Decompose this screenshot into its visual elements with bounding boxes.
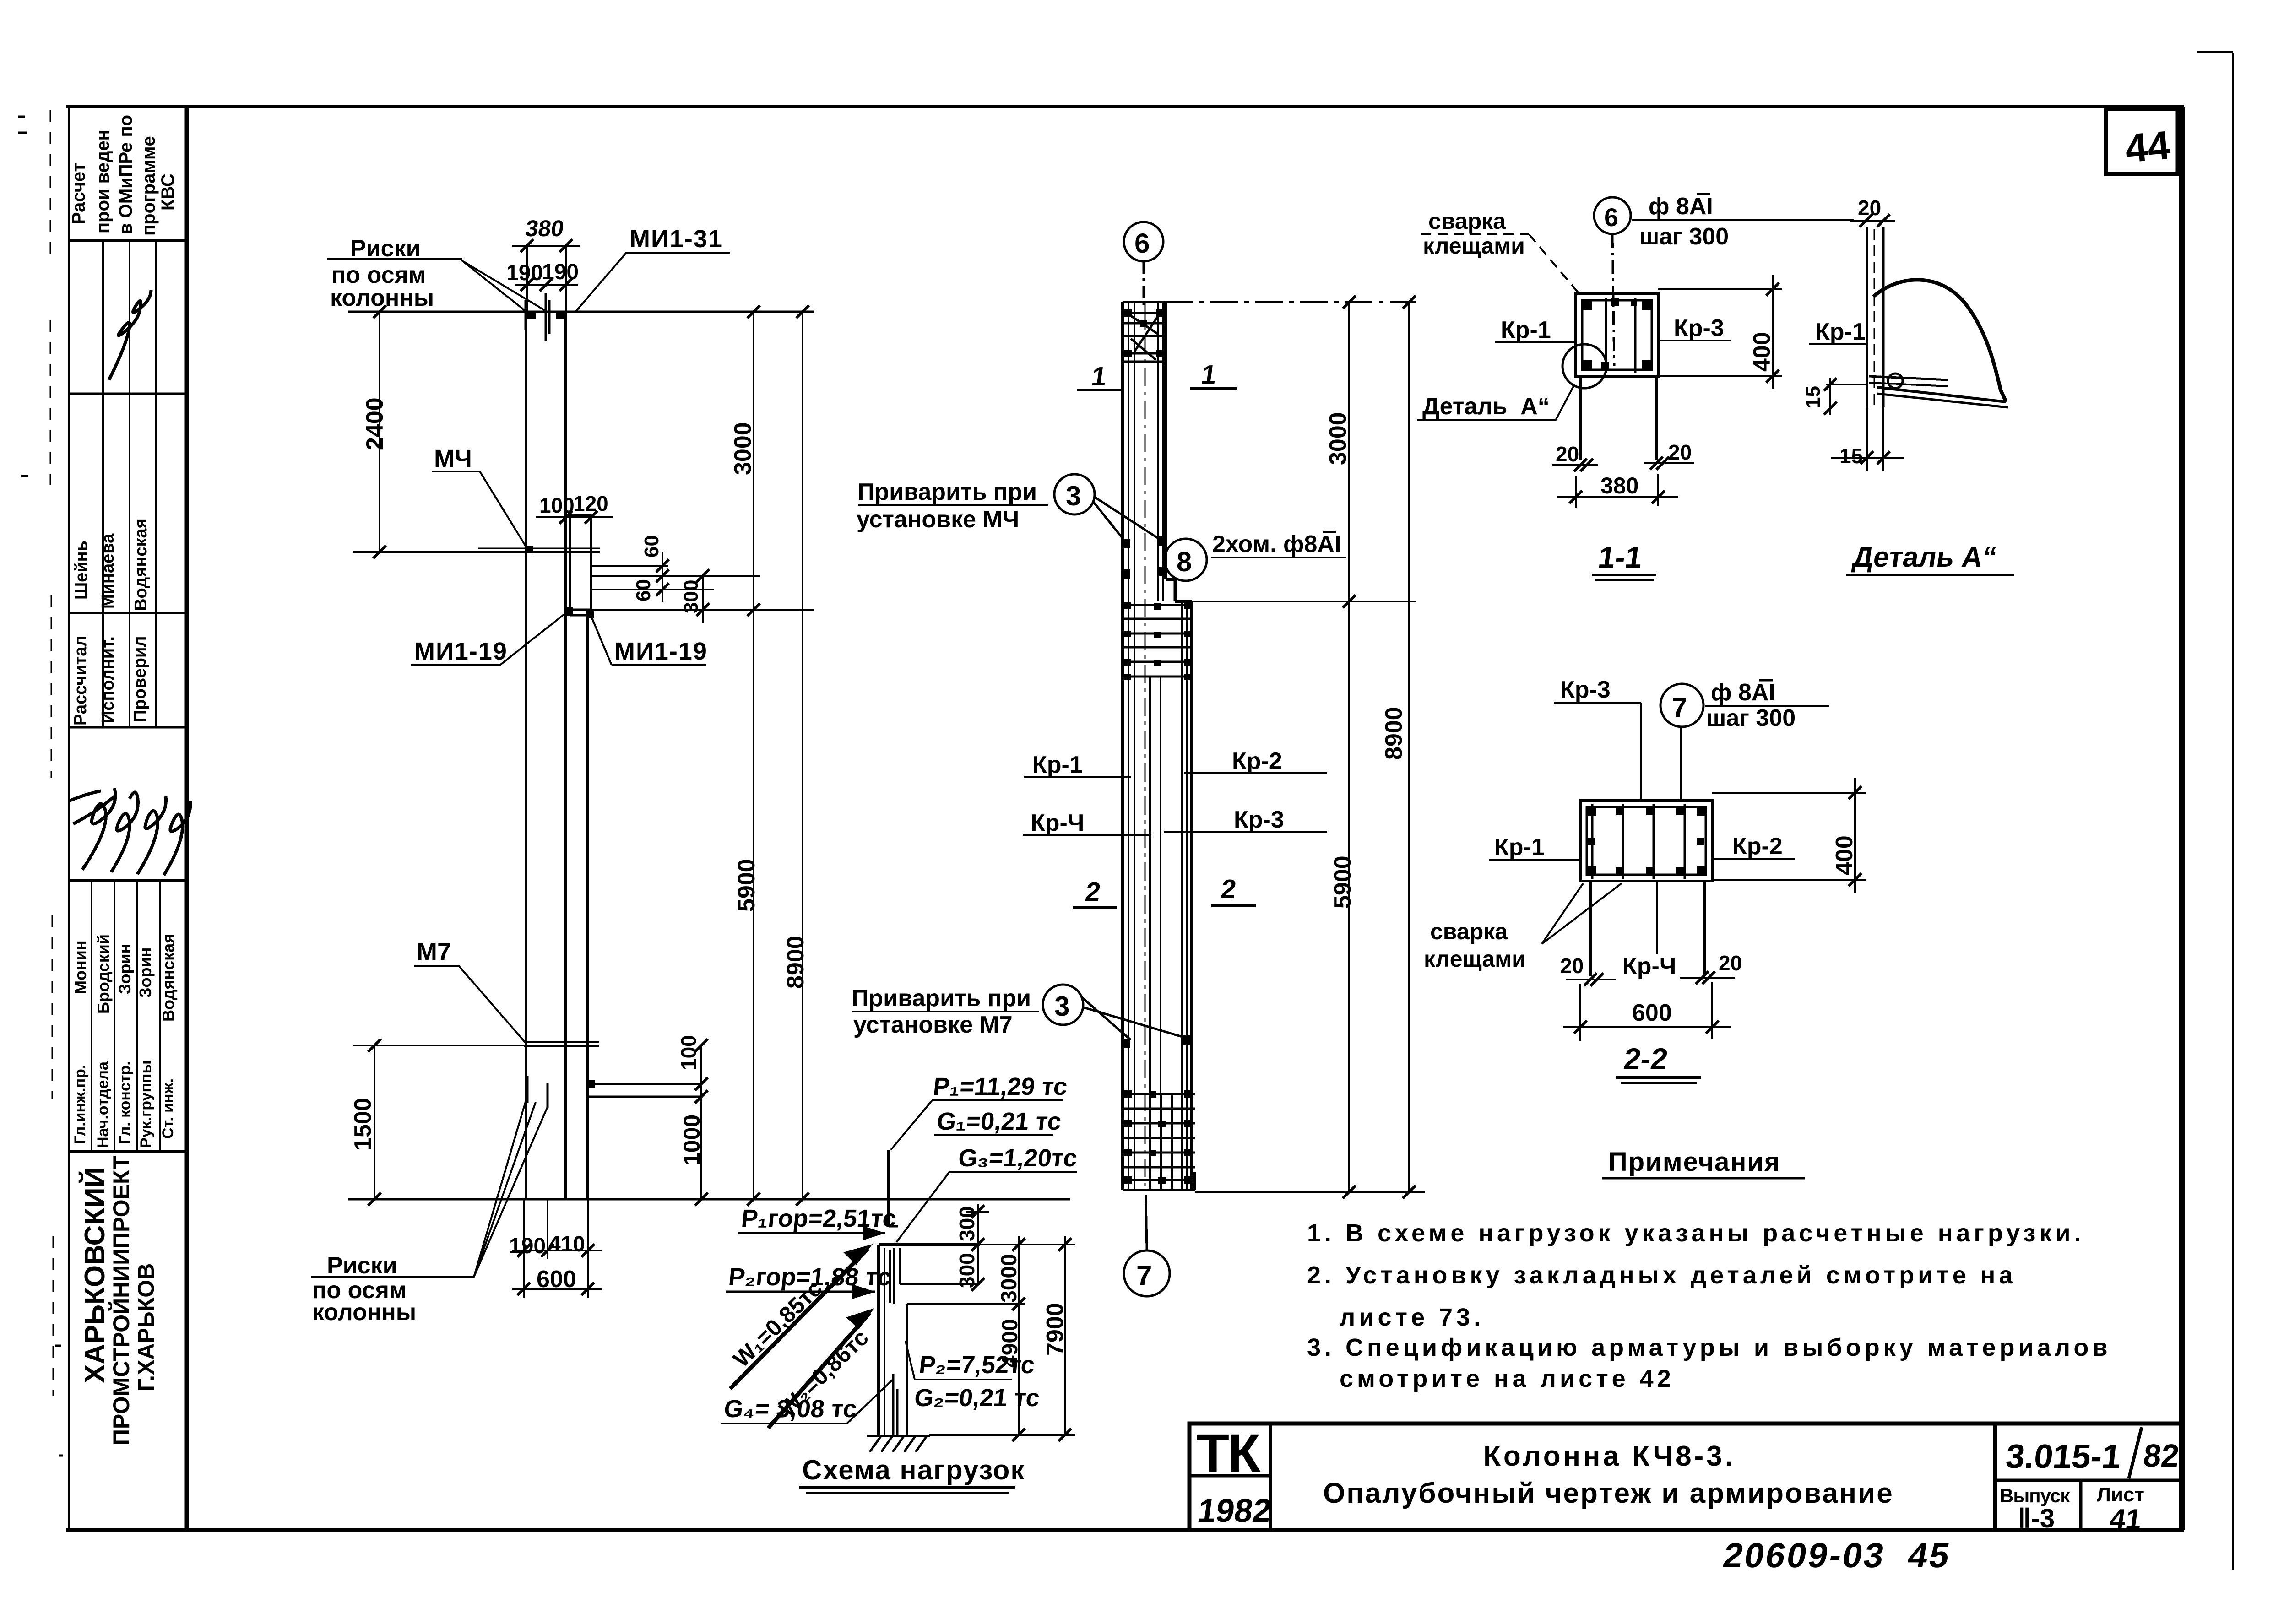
svg-text:Монин: Монин (71, 940, 90, 994)
top plate black marks (526, 312, 566, 319)
W1 wind arrow (730, 1244, 873, 1389)
svg-text:МИ1-19: МИ1-19 (614, 638, 708, 665)
strip signatures 2 scribbles (69, 788, 190, 875)
svg-text:G₂=0,21 тс: G₂=0,21 тс (913, 1384, 1041, 1412)
сварка клещами (2-2) (1424, 919, 1526, 972)
svg-text:7900: 7900 (1042, 1303, 1069, 1356)
svg-text:Р₁=11,29 тс: Р₁=11,29 тс (932, 1073, 1069, 1100)
dim 100 / 1000 right (695, 1039, 708, 1206)
svg-text:МИ1-31: МИ1-31 (629, 225, 723, 253)
svg-text:Зорин: Зорин (115, 944, 134, 994)
dim 8900 rebar (1403, 296, 1416, 1198)
text: Риски по осям колонны (bottom) (312, 1252, 416, 1326)
svg-text:60: 60 (640, 535, 663, 558)
svg-text:установке МЧ: установке МЧ (857, 506, 1019, 533)
P1 leader (891, 1100, 932, 1150)
svg-text:300: 300 (955, 1253, 979, 1288)
svg-text:Кр-1: Кр-1 (1032, 752, 1083, 778)
svg-text:100: 100 (539, 493, 575, 517)
strip labels row 2 rotated (71, 1060, 177, 1148)
console level extension (1192, 601, 1416, 602)
text: Риски по осям колонны (top) (330, 235, 434, 311)
svg-text:400: 400 (1749, 332, 1775, 372)
svg-text:Водянская: Водянская (131, 518, 151, 611)
M7 level lines (524, 1041, 599, 1043)
svg-text:МЧ: МЧ (434, 445, 472, 472)
column bottom line (ground ext) (348, 1198, 1070, 1201)
W2 wind arrow (768, 1308, 874, 1428)
svg-text:Кр-2: Кр-2 (1232, 748, 1282, 774)
svg-text:20609-03 45: 20609-03 45 (1720, 1537, 1954, 1575)
hanging bars below square (1580, 376, 1656, 460)
circled 8 with label (1165, 539, 1207, 601)
svg-text:380: 380 (1600, 473, 1638, 498)
svg-text:8: 8 (1177, 547, 1192, 577)
svg-text:сварка: сварка (1430, 919, 1508, 944)
dim 2400 (373, 305, 386, 558)
svg-text:Риски: Риски (327, 1252, 397, 1279)
dim 1500 (353, 1039, 524, 1206)
svg-text:3.015-1: 3.015-1 (2004, 1437, 2123, 1475)
left page edge dashes (50, 110, 53, 1396)
svg-text:1-1: 1-1 (1596, 541, 1644, 574)
svg-text:7: 7 (1136, 1260, 1152, 1292)
concrete blob outline (1873, 280, 2006, 402)
svg-text:300: 300 (680, 580, 702, 613)
svg-text:Нач.отдела: Нач.отдела (94, 1061, 112, 1148)
svg-text:клещами: клещами (1424, 946, 1526, 972)
svg-text:Кр-3: Кр-3 (1674, 315, 1724, 341)
svg-text:колонны: колонны (312, 1299, 416, 1326)
svg-text:3000: 3000 (1325, 412, 1351, 465)
hanging bars below 2-2 (1590, 881, 1704, 976)
svg-text:20: 20 (1719, 951, 1742, 975)
TITLE BLOCK (1189, 1424, 2182, 1530)
svg-text:190: 190 (506, 261, 543, 285)
rebar column outline (1123, 302, 1195, 1190)
svg-text:Кр-Ч: Кр-Ч (1622, 953, 1676, 980)
svg-text:380: 380 (524, 216, 565, 241)
svg-text:шаг 300: шаг 300 (1706, 705, 1796, 731)
svg-text:Опалубочный чертеж и армирован: Опалубочный чертеж и армирование (1323, 1478, 1894, 1509)
dim line 190/410 (512, 1250, 602, 1251)
column left edge (525, 312, 527, 1199)
console top (566, 514, 591, 516)
svg-text:Проверил: Проверил (130, 636, 150, 722)
MCH plate black mark (526, 546, 533, 553)
svg-text:600: 600 (537, 1266, 576, 1293)
bottom stirrup mesh (1123, 1094, 1195, 1190)
bottom witness lines (512, 1199, 602, 1298)
dim 600 below 2-2 (1563, 982, 1731, 1041)
svg-text:шаг 300: шаг 300 (1639, 223, 1729, 250)
svg-text:410: 410 (548, 1232, 585, 1256)
svg-text:1500: 1500 (350, 1098, 376, 1151)
top riska ticks (526, 293, 549, 341)
svg-text:1000: 1000 (679, 1115, 705, 1165)
dim 400 right of 2-2 (1712, 778, 1866, 893)
svg-text:5900: 5900 (733, 859, 760, 912)
svg-text:G₁=0,21 тс: G₁=0,21 тс (935, 1108, 1063, 1135)
svg-text:Кр-3: Кр-3 (1234, 807, 1284, 833)
console outer verticals (569, 515, 571, 613)
svg-text:листе 73.: листе 73. (1340, 1304, 1484, 1331)
weld circle (1888, 374, 1903, 388)
svg-text:Рук.группы: Рук.группы (137, 1060, 155, 1148)
svg-text:Кр-Ч: Кр-Ч (1031, 810, 1084, 836)
circled 3 lower with leaders (1043, 985, 1187, 1040)
svg-text:2хом. ф8АI: 2хом. ф8АI (1212, 531, 1341, 558)
svg-text:2. Установку закладных деталей: 2. Установку закладных деталей смотрите … (1307, 1261, 2016, 1289)
svg-text:Приварить при: Приварить при (857, 479, 1037, 505)
svg-text:установке М7: установке М7 (853, 1012, 1013, 1038)
svg-text:400: 400 (1831, 835, 1858, 875)
circled 7 section (1660, 684, 1703, 801)
dims right of scheme (929, 1204, 1075, 1441)
plate vertical lines (1867, 227, 1883, 407)
strip names row 1 rotated (72, 518, 151, 611)
strip top box rotated text (69, 115, 178, 236)
column right edge upper (564, 312, 567, 1199)
text: Приварить при установке М7 (852, 985, 1031, 1038)
svg-text:ТК: ТК (1196, 1423, 1261, 1483)
page number box 44 (2106, 109, 2178, 174)
svg-text:Р₁гор=2,51тс: Р₁гор=2,51тс (740, 1205, 898, 1232)
svg-text:4900: 4900 (998, 1319, 1022, 1368)
strip horizontal dividers (69, 239, 187, 242)
bottom border (66, 1528, 2184, 1532)
svg-text:Расчет: Расчет (69, 163, 89, 224)
svg-text:Деталь А“: Деталь А“ (1851, 541, 1999, 573)
svg-text:60: 60 (632, 579, 655, 601)
bottom riska ticks (527, 1076, 548, 1108)
circled 6 top (1124, 222, 1163, 306)
outer page edge right (2232, 53, 2234, 1570)
MI1-19 plate black marks (564, 607, 594, 618)
svg-text:в ОМиПРе по: в ОМиПРе по (116, 115, 136, 234)
left frame border (185, 107, 189, 1530)
dim 100 120 (console top) (536, 511, 613, 524)
rebar view top extension (1166, 301, 1416, 303)
svg-text:Примечания: Примечания (1608, 1147, 1781, 1177)
text: Приварить при установке МЧ (857, 479, 1037, 533)
svg-text:Гл. констр.: Гл. констр. (116, 1061, 134, 1144)
svg-text:20: 20 (1556, 442, 1579, 466)
svg-text:6: 6 (1604, 203, 1618, 232)
svg-text:Кр-2: Кр-2 (1732, 833, 1783, 860)
console stirrup mesh (1123, 605, 1192, 677)
svg-text:2-2: 2-2 (1622, 1042, 1670, 1076)
svg-text:Схема нагрузок: Схема нагрузок (802, 1455, 1025, 1485)
svg-text:82: 82 (2142, 1437, 2181, 1473)
console bottom lines (566, 609, 591, 611)
svg-text:клещами: клещами (1423, 233, 1525, 259)
console right side lines 60/60/300 (591, 552, 814, 623)
svg-text:Исполнит.: Исполнит. (98, 636, 118, 723)
dim 3000/5900 rebar (1343, 296, 1356, 1198)
svg-text:1. В схеме нагрузок указаны ра: 1. В схеме нагрузок указаны расчетные на… (1307, 1219, 2085, 1247)
svg-text:Бродский: Бродский (94, 934, 113, 1014)
svg-text:190: 190 (542, 260, 579, 284)
circled 3 upper with leaders (1054, 474, 1161, 543)
top stirrup mesh (1123, 313, 1166, 362)
dim line 600 (512, 1288, 602, 1290)
svg-text:G₃=1,20тс: G₃=1,20тс (957, 1144, 1079, 1172)
dim 8900 (line B) (796, 305, 809, 1206)
svg-text:прои веден: прои веден (93, 130, 113, 233)
svg-text:Приварить при: Приварить при (852, 985, 1031, 1012)
svg-text:Колонна КЧ8-3.: Колонна КЧ8-3. (1483, 1440, 1736, 1472)
svg-text:Риски: Риски (350, 235, 421, 262)
svg-text:КВС: КВС (158, 173, 178, 211)
svg-text:МИ1-19: МИ1-19 (414, 638, 508, 665)
svg-text:Лист: Лист (2097, 1483, 2144, 1506)
svg-text:41: 41 (2108, 1504, 2144, 1535)
svg-text:Выпуск: Выпуск (2000, 1485, 2070, 1506)
dims 20 20 below 1-1 (1552, 457, 1694, 471)
lower console M7 plate (588, 1084, 701, 1097)
svg-text:600: 600 (1632, 1000, 1672, 1026)
ground hatch (867, 1436, 930, 1452)
svg-text:ХАРЬКОВСКИЙ: ХАРЬКОВСКИЙ (79, 1167, 111, 1383)
scheme column outline (879, 1245, 1025, 1435)
strip vertical dividers upper section (102, 240, 104, 727)
right cells (1993, 1424, 1997, 1530)
dim 380 (top) (512, 239, 580, 312)
svg-text:ф 8АI: ф 8АI (1649, 193, 1713, 220)
svg-text:Водянская: Водянская (159, 934, 178, 1022)
dim 400 right of 1-1 (1658, 275, 1782, 389)
section 2-2 rectangle (1580, 801, 1712, 881)
svg-text:20: 20 (1560, 954, 1584, 978)
svg-text:15: 15 (1802, 386, 1824, 408)
bottom extension (1195, 1191, 1425, 1193)
welded plate marks lower (1123, 1035, 1190, 1048)
right frame border (2179, 107, 2185, 1530)
column right edge lower (586, 610, 589, 1199)
svg-text:120: 120 (573, 492, 608, 515)
svg-text:Ст. инж.: Ст. инж. (159, 1078, 177, 1139)
svg-text:Шейнь: Шейнь (72, 541, 91, 600)
svg-text:М7: М7 (417, 938, 451, 966)
TK cell divider (1269, 1424, 1272, 1530)
svg-text:20: 20 (1668, 440, 1692, 464)
column top extension line (348, 311, 814, 313)
svg-text:Кр-1: Кр-1 (1494, 834, 1545, 861)
circled 6 section (1594, 197, 1631, 366)
rebar dots in square (1583, 298, 1651, 369)
svg-text:8900: 8900 (1381, 707, 1407, 760)
circled 7 bottom (1124, 1195, 1170, 1296)
svg-text:5900: 5900 (1329, 855, 1356, 909)
svg-text:ф 8АI: ф 8АI (1711, 679, 1775, 706)
svg-text:Гл.инж.пр.: Гл.инж.пр. (71, 1065, 89, 1144)
LEFT TITLE STRIP (69, 107, 187, 1530)
text: сварка клещами (1423, 208, 1525, 259)
strip vertical dividers lower section (91, 881, 92, 1151)
welded plate marks mid column (1123, 536, 1166, 579)
strip signature 1 (109, 290, 151, 380)
svg-text:3: 3 (1066, 481, 1081, 511)
rebar dots 2-2 (1588, 808, 1705, 874)
svg-text:ПРОМСТРОЙНИИПРОЕКТ: ПРОМСТРОЙНИИПРОЕКТ (108, 1156, 134, 1445)
svg-text:8900: 8900 (782, 936, 809, 989)
svg-text:3000: 3000 (730, 422, 756, 475)
M7 plate black mark (588, 1080, 595, 1088)
svg-text:Рассчитал: Рассчитал (71, 635, 90, 725)
svg-text:2400: 2400 (362, 397, 388, 450)
svg-text:3: 3 (1054, 991, 1069, 1022)
svg-text:Зорин: Зорин (136, 947, 155, 998)
svg-text:Кр-3: Кр-3 (1560, 677, 1611, 703)
detail callout circle (1562, 344, 1606, 388)
svg-text:1982: 1982 (1195, 1493, 1274, 1529)
svg-text:100: 100 (677, 1035, 700, 1070)
section 1-1 square (1576, 294, 1658, 376)
svg-text:15: 15 (1839, 444, 1863, 468)
strip left edge (68, 107, 70, 1530)
strip names row 2 rotated (71, 934, 178, 1022)
G3 leader (896, 1172, 949, 1242)
svg-text:Г.ХАРЬКОВ: Г.ХАРЬКОВ (133, 1263, 159, 1391)
inner load bars (890, 1250, 897, 1435)
dim 380 below 1-1 (1557, 474, 1678, 508)
svg-text:Деталь А“: Деталь А“ (1422, 393, 1550, 420)
svg-text:смотрите на листе 42: смотрите на листе 42 (1340, 1365, 1675, 1392)
svg-text:7: 7 (1672, 692, 1687, 723)
svg-text:программе: программе (139, 136, 159, 236)
svg-text:44: 44 (2123, 122, 2172, 171)
riska leader top (327, 259, 545, 310)
strip labels row 1 rotated (71, 635, 150, 725)
rebar inner bars (1128, 302, 1187, 1190)
dim 3000 / 5900 (line A) (747, 305, 760, 1206)
MCH level line (353, 551, 600, 553)
svg-text:Минаева: Минаева (98, 533, 118, 609)
svg-text:3000: 3000 (997, 1254, 1021, 1303)
svg-text:сварка: сварка (1428, 208, 1506, 234)
svg-text:6: 6 (1134, 228, 1150, 259)
svg-text:Ⅱ-3: Ⅱ-3 (2018, 1504, 2055, 1533)
svg-text:190: 190 (509, 1234, 546, 1258)
load axis line (887, 1150, 890, 1226)
svg-text:Кр-1: Кр-1 (1501, 317, 1551, 343)
riska leaders bottom (311, 1099, 548, 1277)
strip org name rotated (79, 1156, 159, 1445)
svg-text:300: 300 (955, 1206, 979, 1241)
svg-text:Кр-1: Кр-1 (1815, 319, 1866, 345)
dim 190 190 (515, 278, 578, 291)
top border (66, 105, 2184, 108)
svg-text:3. Спецификацию арматуры и выб: 3. Спецификацию арматуры и выборку матер… (1307, 1334, 2111, 1361)
